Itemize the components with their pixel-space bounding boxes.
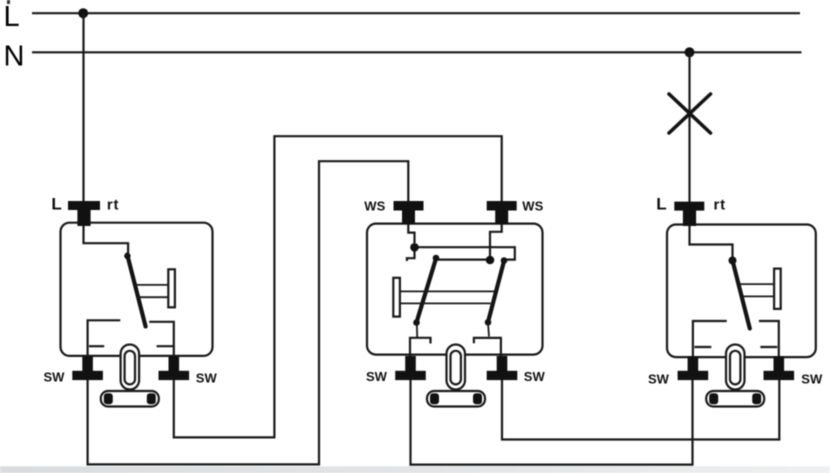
- S1 contact right: [149, 322, 174, 373]
- L rail: [32, 12, 800, 14]
- svg-text:rt: rt: [107, 197, 119, 214]
- S1 screw capsule: [121, 345, 140, 390]
- S2 screw capsule: [447, 345, 466, 390]
- S1 contact left: [88, 320, 121, 373]
- wire: S2 SW-left to S3 SW-left: [411, 378, 693, 465]
- wire: L drop to switch S1: [84, 13, 129, 254]
- S3 contact left: [693, 321, 727, 373]
- S1 mounting bracket: [101, 391, 159, 407]
- svg-text:N: N: [4, 41, 25, 73]
- S1 bottom terminal left: [82, 356, 93, 372]
- S2 mounting bracket: [427, 391, 485, 407]
- svg-text:L: L: [656, 195, 666, 214]
- S2 handle: [393, 278, 400, 317]
- S3 top terminal: [674, 202, 704, 211]
- S1 shaft: [135, 284, 169, 286]
- svg-text:rt: rt: [714, 197, 726, 214]
- S2 bottom terminal left: [405, 356, 416, 372]
- junction dot on L: [78, 8, 88, 18]
- wire: S1 SW-left to S2 WS-left: [88, 161, 409, 464]
- switch box S3: [667, 225, 816, 358]
- S3 contact foot left: [695, 346, 712, 348]
- S3 contact foot right: [760, 346, 777, 348]
- S2 lever right: [501, 257, 508, 264]
- S3 shaft: [739, 283, 775, 285]
- S2 link lower: [438, 259, 490, 261]
- S1 contact foot right: [157, 345, 174, 347]
- S2 top terminal left: [394, 201, 424, 211]
- S1 contact foot left: [89, 345, 104, 347]
- S3 pivot dot: [729, 257, 737, 265]
- S1 top terminal: [68, 201, 100, 210]
- S1 bottom terminal right: [169, 356, 180, 372]
- S2 hook left: [407, 247, 415, 261]
- S3 mounting bracket: [706, 391, 764, 407]
- wire: N drop to lamp and switch S3: [690, 52, 733, 258]
- S2 top terminal right: [487, 201, 517, 211]
- svg-text:SW: SW: [648, 372, 670, 387]
- S1 lever: [124, 253, 130, 259]
- svg-text:SW: SW: [196, 371, 218, 386]
- stray mark top-left: [7, 0, 10, 4]
- svg-text:WS: WS: [522, 199, 543, 214]
- switch box S1: [61, 223, 213, 356]
- S3 screw capsule: [726, 345, 745, 390]
- svg-text:SW: SW: [524, 369, 546, 384]
- S2 cross link upper: [415, 247, 515, 259]
- S3 lever: [733, 261, 750, 329]
- S2 entry left jog: [408, 212, 414, 243]
- svg-text:L: L: [4, 1, 20, 33]
- lamp E1: [669, 94, 711, 133]
- svg-text:SW: SW: [366, 369, 388, 384]
- wire: S1 SW-right to S2 WS-right: [174, 136, 502, 437]
- S2 entry right jog: [490, 212, 502, 256]
- S3 handle: [774, 269, 781, 309]
- svg-text:L: L: [51, 195, 61, 214]
- svg-text:SW: SW: [801, 372, 823, 387]
- svg-text:SW: SW: [44, 370, 66, 385]
- S2 bottom terminal right: [497, 356, 508, 372]
- S2 junction dot B: [486, 256, 495, 265]
- S3 bottom terminal left: [688, 356, 699, 372]
- wire: S2 SW-right to S3 SW-right: [502, 378, 779, 440]
- S3 contact right: [759, 321, 779, 373]
- S3 bottom terminal right: [774, 356, 785, 372]
- S2 contact bracket right: [474, 338, 501, 357]
- N rail: [32, 51, 802, 53]
- junction dot on N: [685, 47, 695, 57]
- S1 handle: [168, 269, 175, 307]
- S2 junction dot A: [410, 243, 419, 252]
- S2 shaft: [400, 290, 494, 292]
- svg-text:WS: WS: [364, 199, 385, 214]
- S2 contact bracket left: [410, 338, 431, 357]
- S2 lever left: [433, 255, 440, 262]
- switch box S2 (intermediate): [367, 224, 543, 355]
